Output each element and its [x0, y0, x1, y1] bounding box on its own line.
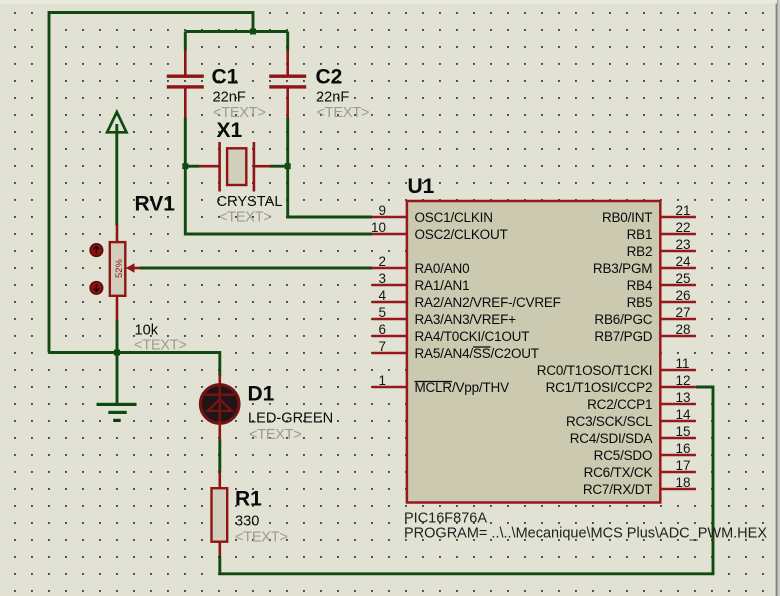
- svg-text:RB7/PGD: RB7/PGD: [594, 329, 652, 344]
- pin 22 RB1: [627, 220, 696, 242]
- pin 26 RB5: [627, 288, 696, 310]
- wire C1 bottom to crystal-left node: [184, 118, 187, 167]
- pin 25 RB4: [627, 271, 696, 293]
- wire pot wiper to RA0 pin2: [140, 267, 372, 270]
- svg-text:RC2/CCP1: RC2/CCP1: [587, 397, 652, 412]
- window edge: [776, 0, 778, 596]
- svg-text:<TEXT>: <TEXT>: [317, 105, 370, 121]
- pin 14 RC3: [566, 407, 696, 429]
- svg-text:16: 16: [676, 441, 691, 456]
- svg-text:22nF: 22nF: [213, 90, 246, 106]
- pin 6 RA4: [372, 322, 529, 344]
- wire C2 bottom to crystal-right node: [286, 118, 289, 167]
- wire C2 top lead: [286, 32, 289, 52]
- svg-text:RB2: RB2: [627, 244, 653, 259]
- svg-text:LED-GREEN: LED-GREEN: [248, 411, 333, 427]
- svg-text:RB3/PGM: RB3/PGM: [593, 261, 652, 276]
- wire crystal-right stub: [270, 165, 288, 168]
- pin 5 RA3: [372, 305, 516, 327]
- svg-text:22: 22: [676, 220, 691, 235]
- svg-text:4: 4: [378, 288, 386, 303]
- svg-text:RB6/PGC: RB6/PGC: [594, 312, 652, 327]
- svg-text:RB4: RB4: [627, 278, 653, 293]
- svg-text:RC7/RX/DT: RC7/RX/DT: [583, 482, 652, 497]
- svg-text:U1: U1: [408, 175, 435, 198]
- svg-text:PROGRAM= ..\..\Mecanique\MCS P: PROGRAM= ..\..\Mecanique\MCS Plus\ADC_PW…: [404, 526, 767, 542]
- node crystal-left junction: [182, 163, 188, 169]
- wire crystal-right to OSC1 pin9: [288, 166, 372, 217]
- svg-text:<TEXT>: <TEXT>: [219, 210, 272, 226]
- wire crystal-left stub: [185, 165, 199, 168]
- pin 7 RA5: [372, 339, 539, 361]
- svg-text:25: 25: [676, 271, 691, 286]
- pin 11 RC0: [537, 356, 696, 378]
- pin 28 RB7: [594, 322, 695, 344]
- wire crystal-left to OSC2 pin10: [185, 166, 372, 234]
- LED D1: [200, 375, 333, 443]
- svg-text:11: 11: [676, 356, 690, 371]
- pin 4 RA2: [372, 288, 561, 310]
- crystal X1: [198, 119, 282, 226]
- svg-text:RC3/SCK/SCL: RC3/SCK/SCL: [566, 414, 653, 429]
- svg-text:RC4/SDI/SDA: RC4/SDI/SDA: [570, 431, 653, 446]
- svg-text:330: 330: [235, 514, 259, 530]
- svg-text:C2: C2: [316, 66, 343, 89]
- svg-text:OSC2/CLKOUT: OSC2/CLKOUT: [415, 227, 508, 242]
- svg-text:7: 7: [378, 339, 386, 354]
- svg-text:24: 24: [676, 254, 692, 269]
- node crystal-right junction: [285, 163, 291, 169]
- node ground junction: [114, 350, 120, 356]
- pin 27 RB6: [594, 305, 695, 327]
- svg-text:27: 27: [676, 305, 691, 320]
- pin 10 OSC2: [371, 220, 508, 242]
- ground: [97, 353, 137, 423]
- svg-text:5: 5: [378, 305, 386, 320]
- svg-text:RB0/INT: RB0/INT: [602, 210, 652, 225]
- svg-text:C1: C1: [212, 66, 239, 89]
- pin 13 RC2: [587, 390, 696, 412]
- svg-text:X1: X1: [217, 119, 243, 142]
- microcontroller U1: [404, 175, 767, 542]
- svg-text:D1: D1: [248, 383, 275, 406]
- svg-text:1: 1: [378, 373, 386, 388]
- svg-text:9: 9: [378, 203, 386, 218]
- svg-text:6: 6: [378, 322, 386, 337]
- pin 23 RB2: [627, 237, 696, 259]
- pin 3 RA1: [372, 271, 469, 293]
- potentiometer RV1: [90, 193, 186, 354]
- svg-text:R1: R1: [235, 488, 262, 511]
- svg-text:15: 15: [676, 424, 691, 439]
- svg-text:<TEXT>: <TEXT>: [249, 427, 302, 443]
- wire top-left vertical (VSS rail): [49, 13, 253, 353]
- wire LED to R1: [218, 440, 221, 473]
- svg-text:RC6/TX/CK: RC6/TX/CK: [584, 465, 653, 480]
- resistor R1: [212, 472, 288, 557]
- pin 15 RC4: [570, 424, 696, 446]
- svg-text:14: 14: [676, 407, 692, 422]
- svg-text:RA1/AN1: RA1/AN1: [415, 278, 470, 293]
- svg-text:10: 10: [371, 220, 386, 235]
- svg-text:17: 17: [676, 458, 691, 473]
- svg-text:RA3/AN3/VREF+: RA3/AN3/VREF+: [415, 312, 517, 327]
- svg-text:3: 3: [378, 271, 386, 286]
- pin 18 RC7: [583, 475, 696, 497]
- pin 21 RB0: [602, 203, 696, 225]
- svg-text:12: 12: [676, 373, 691, 388]
- svg-text:RV1: RV1: [135, 193, 176, 216]
- svg-text:PIC16F876A: PIC16F876A: [404, 511, 487, 527]
- svg-text:18: 18: [676, 475, 691, 490]
- capacitor C2: [269, 50, 369, 121]
- svg-text:MCLR/Vpp/THV: MCLR/Vpp/THV: [415, 380, 510, 395]
- svg-text:RB5: RB5: [627, 295, 653, 310]
- pin 17 RC6: [584, 458, 696, 480]
- svg-text:RA2/AN2/VREF-/CVREF: RA2/AN2/VREF-/CVREF: [415, 295, 561, 310]
- wire R1 bottom to RC1 pin12: [220, 387, 713, 574]
- pin 12 RC1: [546, 373, 696, 395]
- svg-text:RB1: RB1: [627, 227, 653, 242]
- pin 16 RC5: [594, 441, 696, 463]
- svg-text:23: 23: [676, 237, 691, 252]
- svg-text:RA5/AN4/SS/C2OUT: RA5/AN4/SS/C2OUT: [415, 346, 539, 361]
- svg-text:10k: 10k: [135, 323, 159, 339]
- svg-text:2: 2: [378, 254, 386, 269]
- svg-text:52%: 52%: [114, 258, 125, 278]
- power terminal arrow: [107, 112, 126, 226]
- svg-text:21: 21: [676, 203, 691, 218]
- svg-text:RA4/T0CKI/C1OUT: RA4/T0CKI/C1OUT: [415, 329, 530, 344]
- pin 2 RA0: [372, 254, 469, 276]
- pin 9 OSC1: [372, 203, 493, 225]
- svg-text:RA0/AN0: RA0/AN0: [415, 261, 470, 276]
- svg-text:RC1/T1OSI/CCP2: RC1/T1OSI/CCP2: [546, 380, 653, 395]
- svg-text:13: 13: [676, 390, 691, 405]
- svg-text:22nF: 22nF: [316, 90, 349, 106]
- wire C1 top lead: [184, 32, 187, 52]
- svg-text:RC5/SDO: RC5/SDO: [594, 448, 653, 463]
- wire ground rail: [49, 353, 220, 377]
- pin 1 MCLR: [372, 373, 509, 395]
- svg-text:28: 28: [676, 322, 691, 337]
- svg-text:CRYSTAL: CRYSTAL: [217, 194, 283, 210]
- svg-text:<TEXT>: <TEXT>: [235, 530, 288, 546]
- svg-text:26: 26: [676, 288, 691, 303]
- svg-text:RC0/T1OSO/T1CKI: RC0/T1OSO/T1CKI: [537, 363, 653, 378]
- svg-text:OSC1/CLKIN: OSC1/CLKIN: [415, 210, 493, 225]
- wire C1-C2 top bus: [185, 30, 287, 33]
- node top junction: [250, 29, 256, 35]
- pin 24 RB3: [593, 254, 696, 276]
- capacitor C1: [167, 50, 266, 121]
- wire pot bottom green: [116, 321, 119, 353]
